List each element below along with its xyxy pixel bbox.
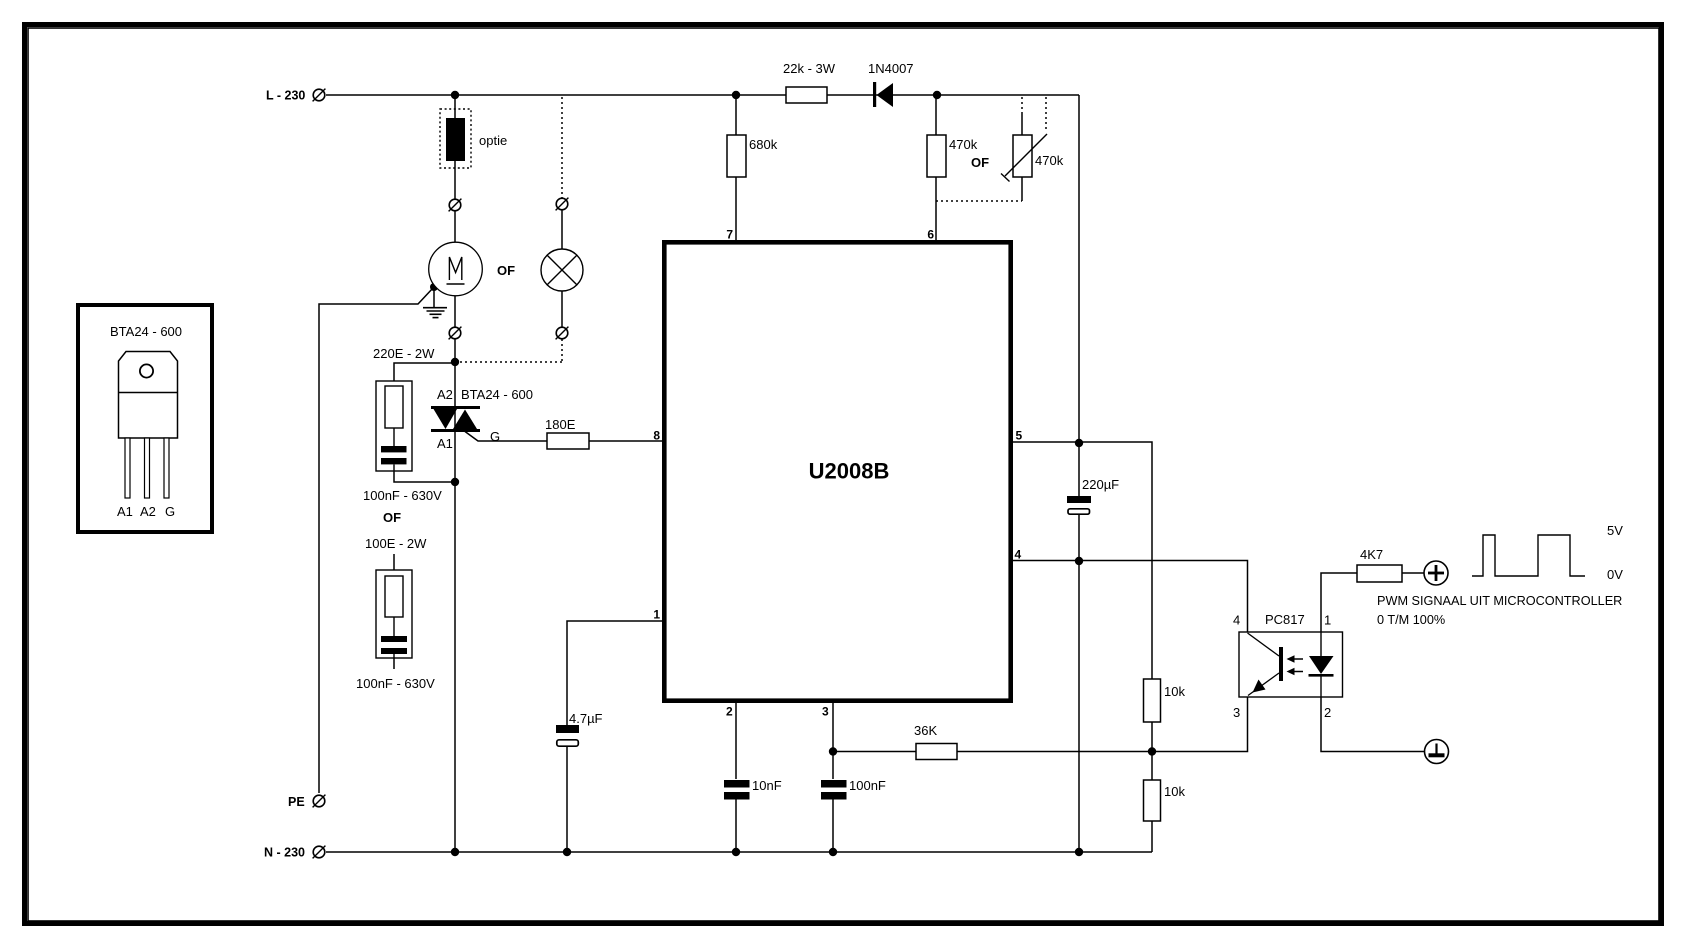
capacitor 10nF <box>724 778 782 800</box>
light arrows <box>1291 658 1303 660</box>
junction N rail / pin3 column <box>829 848 837 856</box>
terminal lamp bottom <box>556 327 569 340</box>
svg-text:100nF - 630V: 100nF - 630V <box>363 488 442 503</box>
resistor 36K <box>914 723 957 760</box>
svg-text:7: 7 <box>726 228 733 242</box>
resistor 180E <box>545 417 589 449</box>
svg-text:BTA24 - 600: BTA24 - 600 <box>461 387 533 402</box>
wire triac gate to 180E to pin 8 <box>465 432 662 442</box>
junction snubber bottom / A1 column <box>451 478 459 486</box>
triac BTA24-600 <box>431 387 533 451</box>
wire fuse/motor/triac column x=455 <box>454 95 456 852</box>
svg-text:10k: 10k <box>1164 784 1185 799</box>
svg-text:100nF - 630V: 100nF - 630V <box>356 676 435 691</box>
wire pin 1 to 4.7uF column <box>567 621 662 852</box>
junction motor frame / PE wire <box>430 283 438 291</box>
svg-text:A2: A2 <box>437 387 453 402</box>
svg-text:N - 230: N - 230 <box>264 846 305 860</box>
optocoupler PC817 <box>1233 612 1343 720</box>
wire pin 6 column with 470k <box>935 95 937 240</box>
svg-text:5V: 5V <box>1607 523 1623 538</box>
package body <box>119 352 178 439</box>
junction N rail / triac column <box>451 848 459 856</box>
svg-text:A1: A1 <box>117 504 133 519</box>
resistor 10k upper <box>1144 679 1186 722</box>
wire lamp column solid segments <box>561 210 563 327</box>
BTA24-600 package drawing box <box>78 305 212 532</box>
IC U2008B <box>653 228 1022 719</box>
resistor 22k-3W <box>783 61 836 103</box>
capacitor 4.7uF <box>556 711 603 746</box>
wire dotted pot bottom link to pin6 column <box>936 200 1022 202</box>
LED D2 <box>1320 632 1322 656</box>
phototransistor base bar <box>1279 647 1283 681</box>
svg-text:470k: 470k <box>1035 153 1064 168</box>
wire potentiometer stubs <box>1021 112 1023 201</box>
wire pin 7 column with 680k <box>735 95 737 240</box>
svg-text:2: 2 <box>726 705 733 719</box>
junction N rail / 4.7uF column <box>563 848 571 856</box>
svg-text:8: 8 <box>653 429 660 443</box>
wire PE column and motor ground link <box>319 288 433 793</box>
svg-text:G: G <box>490 429 500 444</box>
fuse optie (dashed option box) <box>440 109 507 168</box>
wire pin 3 column <box>832 703 834 852</box>
svg-text:BTA24 - 600: BTA24 - 600 <box>110 324 182 339</box>
snubber alternative R 100E-2W with C 100nF-630V <box>356 536 435 691</box>
terminal PE <box>288 795 325 809</box>
phototransistor emitter with arrow <box>1248 673 1279 696</box>
junction L rail / 470k pin6 column <box>933 91 941 99</box>
svg-text:4K7: 4K7 <box>1360 547 1383 562</box>
svg-text:220E - 2W: 220E - 2W <box>373 346 435 361</box>
phototransistor collector <box>1248 633 1280 656</box>
terminal motor bottom <box>449 327 462 340</box>
svg-text:1: 1 <box>1324 613 1331 628</box>
wire pin3 node to 36K to PC817 pin3 <box>833 697 1248 752</box>
svg-text:680k: 680k <box>749 137 778 152</box>
resistor 10k lower <box>1144 780 1186 821</box>
wire dashed pot top links <box>1022 97 1046 132</box>
PWM caption text <box>1377 594 1622 627</box>
resistor 4K7 <box>1357 547 1402 582</box>
diode 1N4007 <box>868 61 914 107</box>
svg-text:PWM SIGNAAL UIT MICROCONTROLLE: PWM SIGNAAL UIT MICROCONTROLLER <box>1377 594 1622 608</box>
terminal N-230 <box>264 846 325 860</box>
junction pin4 / 220uF column <box>1075 557 1083 565</box>
capacitor 100nF <box>821 778 886 800</box>
svg-text:22k - 3W: 22k - 3W <box>783 61 836 76</box>
svg-text:A1: A1 <box>437 436 453 451</box>
svg-text:4.7µF: 4.7µF <box>569 711 603 726</box>
junction pin3 / 36K wire <box>829 747 837 755</box>
svg-text:470k: 470k <box>949 137 978 152</box>
resistor 680k <box>727 135 778 177</box>
svg-text:4: 4 <box>1015 548 1022 562</box>
svg-text:5: 5 <box>1016 429 1023 443</box>
terminal fuse bottom <box>449 199 462 212</box>
wire dashed lamp column bottom <box>561 339 563 362</box>
wire snubber1 leads <box>394 363 455 482</box>
wire L-230 top rail <box>326 94 1079 96</box>
resistor 470k <box>927 135 978 177</box>
svg-text:36K: 36K <box>914 723 937 738</box>
potentiometer 470k <box>971 134 1064 182</box>
terminal plus (PWM input) <box>1424 561 1448 585</box>
svg-text:180E: 180E <box>545 417 576 432</box>
wire pin 2 column <box>735 703 737 852</box>
svg-text:100nF: 100nF <box>849 778 886 793</box>
junction L rail / fuse column <box>451 91 459 99</box>
svg-text:6: 6 <box>927 228 934 242</box>
junction pin5 / right rail <box>1075 439 1083 447</box>
svg-text:OF: OF <box>497 263 515 278</box>
wire pin 4 to PC817 pin4 <box>1013 561 1248 633</box>
lamp (option) <box>541 249 583 291</box>
junction N rail / right rail <box>1075 848 1083 856</box>
junction 10k divider node <box>1148 747 1156 755</box>
wire snubber2 leads <box>393 554 395 669</box>
motor M1 <box>429 242 515 296</box>
svg-text:PC817: PC817 <box>1265 612 1305 627</box>
junction N rail / pin2 column <box>732 848 740 856</box>
capacitor 220uF <box>1067 477 1119 514</box>
terminal L-230 <box>266 89 325 103</box>
svg-text:2: 2 <box>1324 705 1331 720</box>
wire pin 5 to 10k chain <box>1013 442 1152 852</box>
svg-text:4: 4 <box>1233 613 1240 628</box>
svg-text:OF: OF <box>971 155 989 170</box>
svg-text:0V: 0V <box>1607 567 1623 582</box>
svg-text:220µF: 220µF <box>1082 477 1119 492</box>
wire dashed lamp column top <box>561 97 563 198</box>
wire motor ground stub <box>433 288 435 307</box>
terminal ground (PWM return) <box>1425 740 1449 764</box>
svg-text:10k: 10k <box>1164 684 1185 699</box>
wire right vertical rail (top rail down to N rail through 220uF) <box>1078 95 1080 852</box>
svg-text:OF: OF <box>383 510 401 525</box>
svg-text:1N4007: 1N4007 <box>868 61 914 76</box>
svg-text:3: 3 <box>1233 705 1240 720</box>
svg-text:G: G <box>165 504 175 519</box>
wire PC817 pin1 to 4K7 to plus terminal <box>1321 573 1424 632</box>
svg-text:10nF: 10nF <box>752 778 782 793</box>
svg-text:L - 230: L - 230 <box>266 89 305 103</box>
wire PC817 pin2 to ground terminal <box>1321 697 1425 752</box>
svg-text:3: 3 <box>822 705 829 719</box>
wire N-230 bottom rail <box>326 851 1152 853</box>
svg-text:A2: A2 <box>140 504 156 519</box>
package legs <box>125 438 130 498</box>
PWM waveform <box>1472 523 1623 582</box>
snubber R 220E-2W with C 100nF-630V <box>363 346 442 525</box>
svg-text:optie: optie <box>479 133 507 148</box>
ground (motor earth symbol) <box>423 308 447 318</box>
svg-text:100E - 2W: 100E - 2W <box>365 536 427 551</box>
svg-text:U2008B: U2008B <box>809 459 890 484</box>
svg-text:PE: PE <box>288 795 305 809</box>
terminal lamp top <box>556 198 569 211</box>
svg-text:0 T/M 100%: 0 T/M 100% <box>1377 613 1445 627</box>
wire dotted link triac node to lamp column <box>455 361 563 363</box>
junction L rail / 680k pin7 column <box>732 91 740 99</box>
junction triac node / lamp dotted link <box>451 358 459 366</box>
svg-text:1: 1 <box>653 608 660 622</box>
